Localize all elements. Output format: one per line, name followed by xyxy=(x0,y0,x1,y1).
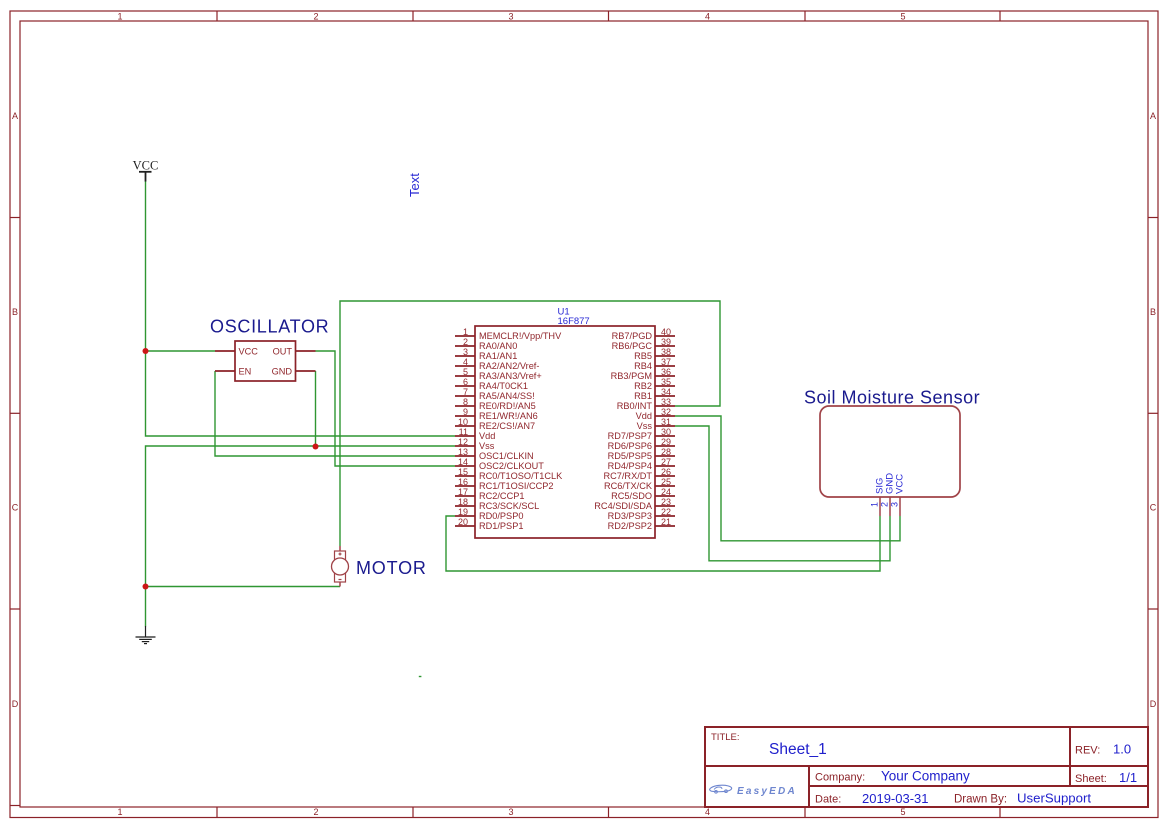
svg-text:4: 4 xyxy=(463,357,468,367)
svg-text:RD2/PSP2: RD2/PSP2 xyxy=(608,521,652,531)
svg-text:VCC: VCC xyxy=(133,159,159,173)
svg-text:27: 27 xyxy=(661,457,671,467)
stray wire fragment xyxy=(419,676,422,678)
svg-text:31: 31 xyxy=(661,417,671,427)
svg-text:Text: Text xyxy=(407,173,422,197)
svg-text:Drawn By:: Drawn By: xyxy=(954,794,1007,806)
U1 pin 3 RA1/AN1 xyxy=(455,347,517,361)
svg-text:D: D xyxy=(12,699,19,709)
U1 pin 17 RC2/CCP1 xyxy=(455,487,524,501)
U1 pin 5 RA3/AN3/Vref+ xyxy=(455,367,542,381)
U1 pin 9 RE1/WR!/AN6 xyxy=(455,407,538,421)
svg-text:RC1/T1OSI/CCP2: RC1/T1OSI/CCP2 xyxy=(479,481,554,491)
svg-text:2: 2 xyxy=(463,337,468,347)
svg-text:RB2: RB2 xyxy=(634,381,652,391)
svg-text:MEMCLR!/Vpp/THV: MEMCLR!/Vpp/THV xyxy=(479,331,562,341)
svg-text:RE2/CS!/AN7: RE2/CS!/AN7 xyxy=(479,421,535,431)
wire oscillator OUT to U1 pin14 OSC2/CLKOUT xyxy=(316,351,456,466)
U1 pin 19 RD0/PSP0 xyxy=(455,507,523,521)
svg-text:RB3/PGM: RB3/PGM xyxy=(611,371,652,381)
column numbers bottom xyxy=(117,807,905,817)
svg-text:5: 5 xyxy=(900,12,905,22)
U1 pin 39 RB6/PGC xyxy=(612,337,675,351)
svg-text:10: 10 xyxy=(458,417,468,427)
oscillator component body xyxy=(235,341,296,381)
svg-text:VCC: VCC xyxy=(239,347,259,357)
svg-text:4: 4 xyxy=(705,807,710,817)
U1 pin 21 RD2/PSP2 xyxy=(608,517,675,531)
EasyEDA logo xyxy=(710,785,732,793)
svg-text:Vss: Vss xyxy=(479,441,495,451)
oscillator pin GND xyxy=(296,370,316,372)
wire VCC rail vertical xyxy=(146,181,456,436)
svg-text:15: 15 xyxy=(458,467,468,477)
svg-text:23: 23 xyxy=(661,497,671,507)
svg-text:26: 26 xyxy=(661,467,671,477)
svg-text:RA2/AN2/Vref-: RA2/AN2/Vref- xyxy=(479,361,539,371)
svg-text:A: A xyxy=(1150,111,1156,121)
svg-text:OUT: OUT xyxy=(273,347,293,357)
power flag VCC xyxy=(133,159,159,182)
svg-text:MOTOR: MOTOR xyxy=(356,558,427,578)
wire U1 pin32 Vdd to sensor VCC pin xyxy=(675,416,900,541)
U1 pin 22 RD3/PSP3 xyxy=(608,507,675,521)
svg-text:B: B xyxy=(1150,307,1156,317)
svg-text:37: 37 xyxy=(661,357,671,367)
svg-text:36: 36 xyxy=(661,367,671,377)
svg-text:RC0/T1OSO/T1CLK: RC0/T1OSO/T1CLK xyxy=(479,471,563,481)
oscillator pin VCC xyxy=(215,350,235,352)
svg-text:12: 12 xyxy=(458,437,468,447)
svg-text:38: 38 xyxy=(661,347,671,357)
junction dot VCC rail / oscillator VCC xyxy=(143,348,149,354)
svg-text:4: 4 xyxy=(705,12,710,22)
U1 pin 16 RC1/T1OSI/CCP2 xyxy=(455,477,554,491)
svg-text:35: 35 xyxy=(661,377,671,387)
svg-text:11: 11 xyxy=(459,427,468,437)
wire U1 pin19 RD0/PSP0 to sensor SIG pin xyxy=(446,516,880,571)
svg-text:2: 2 xyxy=(313,12,318,22)
svg-text:TITLE:: TITLE: xyxy=(711,732,740,743)
svg-text:OSC2/CLKOUT: OSC2/CLKOUT xyxy=(479,461,544,471)
svg-text:RD0/PSP0: RD0/PSP0 xyxy=(479,511,523,521)
svg-text:RB4: RB4 xyxy=(634,361,652,371)
svg-text:RC7/RX/DT: RC7/RX/DT xyxy=(604,471,653,481)
sensor pin 3 VCC xyxy=(890,474,906,516)
svg-text:34: 34 xyxy=(661,387,671,397)
sensor pin 1 SIG xyxy=(870,478,886,516)
svg-text:RD4/PSP4: RD4/PSP4 xyxy=(608,461,652,471)
U1 pin 23 RC4/SDI/SDA xyxy=(594,497,675,511)
svg-text:RC5/SDO: RC5/SDO xyxy=(611,491,652,501)
U1 pin 36 RB3/PGM xyxy=(611,367,675,381)
svg-text:EasyEDA: EasyEDA xyxy=(737,786,797,797)
svg-text:RA0/AN0: RA0/AN0 xyxy=(479,341,517,351)
svg-text:RD1/PSP1: RD1/PSP1 xyxy=(479,521,523,531)
svg-text:B: B xyxy=(12,307,18,317)
svg-text:20: 20 xyxy=(458,517,468,527)
oscillator pin EN xyxy=(215,370,235,372)
left band bottom closure tick xyxy=(10,805,20,807)
U1 pin 6 RA4/T0CK1 xyxy=(455,377,528,391)
svg-text:16: 16 xyxy=(458,477,468,487)
U1 pin 15 RC0/T1OSO/T1CLK xyxy=(455,467,563,481)
svg-text:2: 2 xyxy=(313,807,318,817)
svg-text:33: 33 xyxy=(661,397,671,407)
svg-text:9: 9 xyxy=(463,407,468,417)
svg-text:29: 29 xyxy=(661,437,671,447)
svg-text:Vss: Vss xyxy=(637,421,653,431)
wire oscillator GND down to GND net xyxy=(315,371,317,447)
svg-text:32: 32 xyxy=(661,407,671,417)
svg-text:RD6/PSP6: RD6/PSP6 xyxy=(608,441,652,451)
U1 pin 38 RB5 xyxy=(634,347,675,361)
svg-text:Date:: Date: xyxy=(815,794,841,806)
svg-text:RB5: RB5 xyxy=(634,351,652,361)
svg-text:RE0/RD!/AN5: RE0/RD!/AN5 xyxy=(479,401,536,411)
svg-text:24: 24 xyxy=(661,487,671,497)
svg-text:3: 3 xyxy=(890,502,900,507)
svg-text:8: 8 xyxy=(463,397,468,407)
wire motor top to U1 pin33 RB0/INT over top xyxy=(340,301,720,546)
svg-text:RA1/AN1: RA1/AN1 xyxy=(479,351,517,361)
svg-text:5: 5 xyxy=(900,807,905,817)
svg-text:18: 18 xyxy=(458,497,468,507)
row letters right xyxy=(1150,111,1157,709)
U1 pin 11 Vdd xyxy=(455,427,495,441)
U1 pin 14 OSC2/CLKOUT xyxy=(455,457,544,471)
svg-text:Sheet_1: Sheet_1 xyxy=(769,741,827,758)
svg-text:7: 7 xyxy=(463,387,468,397)
wire VCC to oscillator VCC pin xyxy=(146,350,216,352)
svg-text:RC4/SDI/SDA: RC4/SDI/SDA xyxy=(594,501,653,511)
svg-text:C: C xyxy=(12,503,19,513)
svg-text:3: 3 xyxy=(508,807,513,817)
svg-text:RD3/PSP3: RD3/PSP3 xyxy=(608,511,652,521)
svg-text:REV:: REV: xyxy=(1075,745,1100,757)
U1 pin 29 RD6/PSP6 xyxy=(608,437,675,451)
svg-text:1: 1 xyxy=(870,502,880,507)
row letters left xyxy=(12,111,19,709)
svg-text:6: 6 xyxy=(463,377,468,387)
svg-text:1.0: 1.0 xyxy=(1113,742,1131,757)
U1 pin 25 RC6/TX/CK xyxy=(604,477,675,491)
U1 pin 28 RD5/PSP5 xyxy=(608,447,675,461)
svg-text:OSCILLATOR: OSCILLATOR xyxy=(210,317,329,337)
motor MG1 symbol xyxy=(332,546,349,587)
svg-text:RC6/TX/CK: RC6/TX/CK xyxy=(604,481,653,491)
svg-text:25: 25 xyxy=(661,477,671,487)
U1 pin 2 RA0/AN0 xyxy=(455,337,517,351)
U1 pin 30 RD7/PSP7 xyxy=(608,427,675,441)
wire GND net: U1 pin12 Vss to rail and down to ground xyxy=(146,446,456,627)
U1 pin 33 RB0/INT xyxy=(617,397,675,411)
U1 pin 1 MEMCLR!/Vpp/THV xyxy=(455,327,562,341)
svg-text:RA5/AN4/SS!: RA5/AN4/SS! xyxy=(479,391,535,401)
U1 pin 40 RB7/PGD xyxy=(612,327,675,341)
row tick marks left xyxy=(10,218,20,610)
wire U1 pin31 Vss to sensor GND pin xyxy=(675,426,890,561)
column tick marks bottom xyxy=(217,807,1000,818)
U1 pin 26 RC7/RX/DT xyxy=(604,467,676,481)
svg-text:RA3/AN3/Vref+: RA3/AN3/Vref+ xyxy=(479,371,542,381)
wire motor bottom to GND rail xyxy=(146,586,341,588)
svg-text:Sheet:: Sheet: xyxy=(1075,773,1107,785)
svg-text:Vdd: Vdd xyxy=(479,431,495,441)
svg-text:RE1/WR!/AN6: RE1/WR!/AN6 xyxy=(479,411,538,421)
svg-text:21: 21 xyxy=(661,517,671,527)
U1 pin 27 RD4/PSP4 xyxy=(608,457,675,471)
title block texts xyxy=(711,732,1107,806)
junction dot oscillator GND / Vss wire xyxy=(313,444,319,450)
svg-text:2019-03-31: 2019-03-31 xyxy=(862,791,929,806)
svg-text:C: C xyxy=(1150,503,1157,513)
svg-text:Soil Moisture Sensor: Soil Moisture Sensor xyxy=(804,388,980,408)
svg-text:RB6/PGC: RB6/PGC xyxy=(612,341,653,351)
svg-text:17: 17 xyxy=(458,487,468,497)
svg-text:3: 3 xyxy=(463,347,468,357)
svg-text:RD7/PSP7: RD7/PSP7 xyxy=(608,431,652,441)
U1 pin 12 Vss xyxy=(455,437,495,451)
U1 pin 10 RE2/CS!/AN7 xyxy=(455,417,535,431)
U1 pin 7 RA5/AN4/SS! xyxy=(455,387,535,401)
title block frame xyxy=(705,727,1148,807)
sensor pin 2 GND xyxy=(880,473,896,516)
U1 pin 24 RC5/SDO xyxy=(611,487,675,501)
svg-text:A: A xyxy=(12,111,18,121)
svg-text:40: 40 xyxy=(661,327,671,337)
ground symbol xyxy=(136,626,156,644)
U1 pin 34 RB1 xyxy=(634,387,675,401)
wire oscillator EN to U1 pin13 OSC1/CLKIN xyxy=(215,371,455,456)
column tick marks top xyxy=(217,11,1000,21)
U1 pin 13 OSC1/CLKIN xyxy=(455,447,534,461)
svg-text:VCC: VCC xyxy=(895,474,906,494)
svg-text:D: D xyxy=(1150,699,1157,709)
svg-text:RC3/SCK/SCL: RC3/SCK/SCL xyxy=(479,501,539,511)
svg-text:RC2/CCP1: RC2/CCP1 xyxy=(479,491,524,501)
svg-text:RA4/T0CK1: RA4/T0CK1 xyxy=(479,381,528,391)
svg-text:RD5/PSP5: RD5/PSP5 xyxy=(608,451,652,461)
svg-text:RB1: RB1 xyxy=(634,391,652,401)
svg-text:5: 5 xyxy=(463,367,468,377)
U1 pin 20 RD1/PSP1 xyxy=(455,517,523,531)
svg-text:RB0/INT: RB0/INT xyxy=(617,401,653,411)
U1 pin 35 RB2 xyxy=(634,377,675,391)
svg-text:Vdd: Vdd xyxy=(636,411,652,421)
sensor component body xyxy=(820,406,960,497)
svg-text:22: 22 xyxy=(661,507,671,517)
U1 pin 4 RA2/AN2/Vref- xyxy=(455,357,539,371)
svg-text:30: 30 xyxy=(661,427,671,437)
svg-text:UserSupport: UserSupport xyxy=(1017,791,1091,806)
U1 pin 32 Vdd xyxy=(636,407,675,421)
svg-text:Your Company: Your Company xyxy=(881,769,970,784)
oscillator pin OUT xyxy=(296,350,316,352)
svg-text:EN: EN xyxy=(239,367,252,377)
svg-text:28: 28 xyxy=(661,447,671,457)
svg-text:19: 19 xyxy=(458,507,468,517)
U1 pin 31 Vss xyxy=(637,417,675,431)
svg-text:OSC1/CLKIN: OSC1/CLKIN xyxy=(479,451,534,461)
column numbers top xyxy=(117,12,905,22)
svg-text:14: 14 xyxy=(458,457,468,467)
U1 pin 37 RB4 xyxy=(634,357,675,371)
junction dot motor bottom / GND rail xyxy=(143,584,149,590)
svg-text:13: 13 xyxy=(458,447,468,457)
svg-text:2: 2 xyxy=(880,502,890,507)
svg-text:39: 39 xyxy=(661,337,671,347)
U1 pin 18 RC3/SCK/SCL xyxy=(455,497,539,511)
U1 pin 8 RE0/RD!/AN5 xyxy=(455,397,536,411)
svg-text:GND: GND xyxy=(272,367,293,377)
row tick marks right xyxy=(1148,218,1158,610)
U1 component body xyxy=(475,326,655,538)
svg-text:1: 1 xyxy=(117,12,122,22)
svg-text:RB7/PGD: RB7/PGD xyxy=(612,331,653,341)
svg-text:1: 1 xyxy=(117,807,122,817)
svg-text:1/1: 1/1 xyxy=(1119,770,1137,785)
svg-text:Company:: Company: xyxy=(815,772,865,784)
oscillator pin names xyxy=(239,347,293,377)
svg-text:3: 3 xyxy=(508,12,513,22)
svg-text:1: 1 xyxy=(463,327,468,337)
